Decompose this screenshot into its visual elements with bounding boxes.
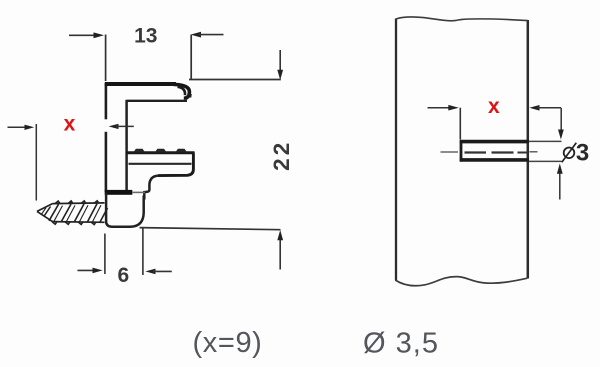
top arm end curl [174,84,189,99]
profile outer wall lower segment [105,132,108,192]
svg-text:13: 13 [134,25,157,48]
diameter 3 upper arrow [558,108,564,140]
hole bottom line [460,158,529,162]
svg-text:22: 22 [269,140,294,171]
middle arm right end and bottom [158,153,193,176]
svg-text:Ø 3,5: Ø 3,5 [363,328,439,360]
profile inner wall [125,100,128,192]
dimension 13 left arrow [69,32,104,38]
screw shank outline [53,203,105,222]
screw crest zigzag bottom [52,222,96,225]
middle arm top line [126,151,195,154]
screw thread 1 [49,204,59,221]
dimension 22 top arrow [277,50,283,80]
middle arm serration 3 [175,149,187,153]
screw channel bar thin extension [132,191,145,193]
diameter 3 extension upper [529,140,562,142]
svg-text:x: x [64,113,76,136]
dimension x left arrow [8,125,35,130]
screw thread 3 [75,204,85,222]
extension line 6 right [142,228,144,276]
screw thread 4 [88,204,98,222]
dimension 6 left arrow [78,268,103,274]
panel top break line [396,17,528,21]
dimension 6 right arrow [145,269,171,275]
panel left edge [395,19,397,281]
middle arm groove line [129,163,192,165]
screw thread companion lines [54,205,101,222]
middle arm serration 2 [155,149,167,153]
diameter 3 extension lower [529,160,562,162]
diameter 3 lower arrow [557,164,563,200]
arrow pointing to wall [109,124,134,129]
hole top line [460,140,529,144]
dimension x right-figure right arrow [529,105,561,111]
dimension 22 top extension line [189,79,281,81]
screw crest zigzag top [55,201,99,204]
screw thread on cone 2 [42,208,47,215]
svg-text:(x=9): (x=9) [193,327,263,359]
profile top arm [105,82,176,86]
svg-text:3: 3 [576,140,589,167]
screw thread 2 [62,204,72,221]
dimension 13 right arrow [191,32,224,38]
extension line at screw tip [35,124,37,201]
panel bottom break line [395,277,527,286]
hole centerline left segment [441,151,459,153]
extension line left of dim 13 [105,35,107,82]
baseline extension to dim 22 [140,228,281,230]
dimension x right-figure left arrow [428,105,459,111]
svg-text:6: 6 [117,264,129,287]
hole centerline right segment [530,151,538,153]
profile foot outline [106,193,144,227]
screw thread on cone [44,207,51,217]
screw tip cone [37,204,53,222]
screw channel bottom bar [105,190,133,195]
extension line 6 left [104,234,106,275]
profile outer wall upper segment [105,83,108,119]
label diameter-3 symbol [562,143,577,163]
svg-text:x: x [488,95,500,118]
screw thread 5 [100,208,108,222]
middle arm bottom curve to foot [144,176,158,200]
extension line to hole corner [459,108,461,140]
hole centerline dash 1 [465,151,487,153]
extension line right of dim 13 [190,35,192,80]
top arm underside [127,100,187,102]
dimension 22 bottom arrow [277,230,283,270]
hole left end [460,140,463,161]
hole centerline dash 3 [518,152,528,154]
hole centerline dash 2 [492,151,514,153]
middle arm serration 1 [133,149,145,153]
top arm end inner fill [178,87,186,95]
top arm end nub [188,93,192,98]
panel right edge [527,20,530,279]
